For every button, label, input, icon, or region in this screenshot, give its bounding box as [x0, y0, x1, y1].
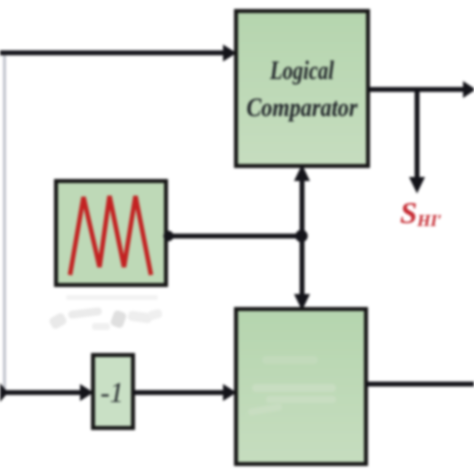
node: S_HI' output label [400, 195, 442, 230]
block: bottom comparator/modulator [236, 309, 366, 464]
node: faint erased text inside block [248, 356, 336, 416]
wire: branch down to S_HI label arrow [415, 89, 420, 178]
wire: top input line to comparator [0, 50, 224, 55]
svg-text:-1: -1 [100, 378, 123, 409]
node: faint erased watermark text [48, 295, 163, 330]
waveform: red triangle carrier [70, 196, 151, 275]
wire: comparator output to right edge [368, 87, 464, 92]
block: Logical Comparator U1 [236, 11, 368, 166]
wire: left input to -1 gain [0, 390, 83, 395]
wire: faint left vertical bus [3, 53, 6, 392]
wire: bottom block output to right edge [366, 382, 474, 387]
block: gain -1 [93, 355, 133, 428]
wire: triangle source output to junction [168, 234, 302, 239]
node: junction dot [295, 230, 307, 242]
node: source output port [163, 231, 173, 241]
wire: vertical link comparator <-> bottom block [300, 172, 305, 304]
wire: -1 gain to bottom block [133, 390, 226, 395]
block: triangle carrier source [56, 181, 174, 285]
svg-text:Comparator: Comparator [247, 93, 359, 122]
svg-text:Logical: Logical [269, 56, 334, 85]
